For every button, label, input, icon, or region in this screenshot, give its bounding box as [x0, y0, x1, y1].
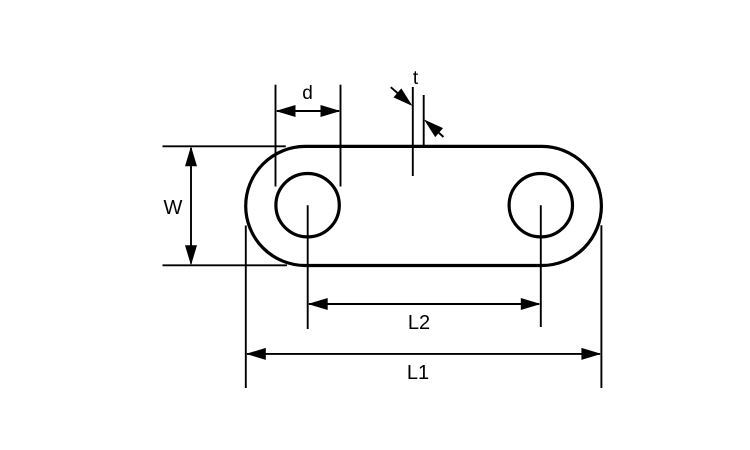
W dimension top extension line [163, 145, 286, 147]
L2 arrowhead right [521, 298, 541, 310]
right hole [509, 174, 572, 237]
d dimension line [277, 110, 339, 112]
W arrowhead down [185, 245, 197, 265]
L2 arrowhead left [308, 298, 328, 310]
d arrowhead right [321, 105, 341, 117]
d dimension left extension line [275, 85, 277, 187]
d dimension right extension line [340, 85, 342, 187]
svg-text:L1: L1 [407, 362, 429, 384]
link plate outline (stadium shape) [246, 146, 602, 265]
t leader arrow lower-right [427, 122, 444, 137]
L2 right extension line (right hole center line) [540, 205, 542, 327]
svg-text:W: W [164, 197, 183, 219]
L1 right extension line [600, 225, 602, 388]
d arrowhead left [276, 105, 296, 117]
L1 dimension line [247, 353, 600, 355]
W dimension bottom extension line [163, 264, 288, 266]
svg-text:t: t [413, 68, 419, 89]
W arrowhead up [185, 146, 197, 166]
t leader arrow upper-left [391, 87, 410, 104]
svg-text:d: d [302, 83, 313, 104]
L1 arrowhead right [581, 348, 601, 360]
left hole [276, 174, 339, 237]
W dimension line [190, 148, 192, 264]
L1 arrowhead left [246, 348, 266, 360]
L1 left extension line [245, 226, 247, 389]
L2 left extension line (left hole center line) [307, 205, 309, 329]
t dimension right line [423, 95, 425, 146]
t dimension left line [412, 87, 414, 176]
L2 dimension line [309, 303, 539, 305]
svg-text:L2: L2 [408, 312, 430, 334]
